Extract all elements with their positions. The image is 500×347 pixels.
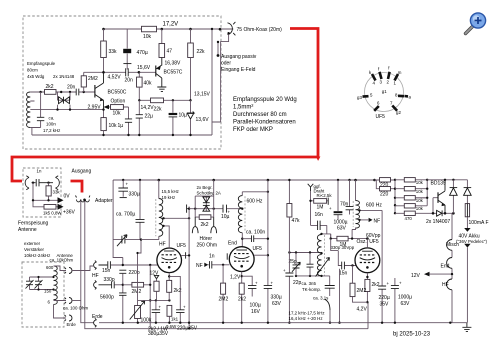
svg-text:Eingang E-Feld: Eingang E-Feld (221, 67, 256, 73)
svg-text:2M2: 2M2 (219, 297, 229, 303)
svg-text:220p: 220p (129, 270, 140, 276)
pin 8 (398, 95, 408, 98)
jack HF input (94, 261, 108, 270)
resistor 1k5 0,8W (44, 205, 56, 210)
tube socket UF5 pinout circle (365, 73, 404, 112)
svg-text:600 Hz: 600 Hz (247, 198, 263, 204)
svg-text:12V: 12V (411, 273, 421, 279)
svg-text:Fernspeisung: Fernspeisung (18, 221, 49, 227)
capacitor 10u electrolytic (172, 100, 174, 135)
svg-text:330µ: 330µ (129, 192, 140, 198)
jack 100 Ohm (65, 298, 73, 304)
svg-text:10k: 10k (416, 206, 424, 211)
svg-text:100µ: 100µ (250, 303, 261, 309)
resistor 10k 2 (395, 188, 427, 190)
svg-text:ca. 10kOhm: ca. 10kOhm (50, 258, 74, 263)
svg-text:Parallel-Kondensatoren: Parallel-Kondensatoren (233, 120, 296, 126)
capacitor variable 1 (29, 277, 31, 290)
svg-text:Erde: Erde (67, 322, 77, 327)
svg-text:Empfangspule: Empfangspule (27, 61, 56, 66)
resistor 40k (138, 72, 140, 77)
svg-text:150: 150 (44, 289, 52, 294)
coil matchbox (54, 266, 58, 304)
wire bias row (138, 299, 170, 301)
zener diode 13,6V (190, 100, 192, 135)
resistor 470 (395, 212, 433, 214)
limiter section main wire (189, 208, 242, 210)
svg-text:22k: 22k (154, 107, 163, 113)
svg-text:2k2: 2k2 (238, 297, 246, 303)
wire adapter downlead B (85, 201, 368, 329)
svg-text:5600p: 5600p (100, 295, 114, 301)
svg-text:+: + (387, 281, 390, 286)
svg-text:63V: 63V (272, 301, 282, 307)
svg-text:17,2 kHz-17,5 kHz: 17,2 kHz-17,5 kHz (289, 310, 325, 315)
svg-text:16n: 16n (315, 212, 324, 218)
svg-text:2k2: 2k2 (372, 282, 380, 288)
svg-text:35V: 35V (380, 302, 390, 308)
svg-text:Misch: Misch (446, 242, 459, 248)
capacitor trimmer 25p (295, 253, 297, 276)
svg-text:63V: 63V (401, 301, 411, 307)
wire diode row (433, 212, 453, 214)
svg-text:+: + (329, 206, 332, 211)
svg-text:End: End (441, 263, 450, 269)
svg-text:22µ: 22µ (145, 114, 154, 120)
resistor 1M (311, 191, 329, 225)
svg-text:220µ: 220µ (379, 295, 390, 301)
svg-text:("36V Pedelec"): ("36V Pedelec") (456, 239, 487, 244)
resistor 10k 1 (395, 179, 427, 181)
capacitor 22p (309, 253, 311, 276)
svg-text:10k: 10k (109, 123, 118, 129)
svg-text:70n: 70n (340, 202, 349, 208)
svg-text:externer: externer (24, 241, 41, 246)
svg-text:15,5 kHz: 15,5 kHz (162, 189, 179, 194)
pin 7 (392, 106, 397, 111)
tube V2 anode (236, 249, 247, 251)
svg-text:Erde: Erde (92, 314, 103, 320)
svg-text:HF: HF (442, 282, 449, 288)
svg-text:380µ35V: 380µ35V (148, 331, 169, 337)
resistor Option 10k (108, 106, 129, 108)
resistor 10k 3 (395, 197, 427, 199)
tube V1 cathode network (168, 273, 170, 301)
svg-text:ca. 3,1s: ca. 3,1s (313, 295, 329, 300)
wire base node (84, 71, 156, 73)
headphone jack symbols (195, 217, 214, 226)
svg-text:15n: 15n (102, 268, 111, 274)
svg-text:+: + (271, 281, 274, 286)
arrow +36V (58, 204, 64, 210)
svg-text:HF: HF (159, 242, 166, 248)
matchbox dashed box (22, 262, 64, 327)
tube V3 cathode network (366, 273, 368, 302)
svg-text:NF: NF (374, 219, 381, 225)
wire 0V line (33, 183, 58, 207)
svg-text:40k: 40k (144, 81, 153, 87)
tube V1 HF UF5 envelope (157, 248, 182, 273)
resistor 220 b (380, 187, 391, 191)
svg-text:4,52V: 4,52V (108, 75, 122, 81)
svg-text:1k5 0,8W: 1k5 0,8W (43, 211, 62, 216)
tube V1 cathode (162, 258, 177, 260)
svg-text:+36V: +36V (63, 210, 75, 216)
capacitor elco cathode bypass (169, 276, 180, 322)
ground rail bottom (99, 322, 467, 324)
svg-text:100n: 100n (46, 122, 56, 127)
fuse 100mA (465, 204, 469, 217)
diode protect 2 (466, 180, 468, 204)
capacitor 3n5 TK-komp (329, 276, 331, 296)
svg-text:ca.: ca. (49, 116, 55, 121)
wire right edge vertical (212, 29, 229, 135)
capacitor 330u (122, 180, 124, 197)
svg-text:+: + (283, 268, 286, 273)
svg-text:22p: 22p (293, 280, 302, 286)
svg-text:330µ: 330µ (271, 295, 282, 301)
capacitor 1n series (208, 264, 229, 266)
wire B+ top line (427, 179, 467, 181)
wire grid line tube1 (111, 264, 158, 266)
resistor 33k (103, 29, 105, 41)
wire jack1 to HF input (72, 266, 93, 271)
svg-text:m: m (398, 70, 402, 75)
svg-text:Hörer: Hörer (200, 236, 213, 242)
svg-text:15,6V: 15,6V (137, 65, 151, 71)
adapter socket contacts (76, 196, 90, 202)
svg-text:220: 220 (380, 191, 389, 197)
tube V3 cathode (360, 258, 375, 260)
capacitor 15n series (108, 261, 111, 268)
capacitor 10u series (223, 205, 227, 213)
resistor 2k2 (45, 90, 57, 95)
svg-text:TK-komp.: TK-komp. (302, 287, 321, 292)
svg-text:20n: 20n (67, 85, 76, 91)
svg-text:HF: HF (92, 273, 99, 279)
wire rail drops (102, 28, 105, 31)
potentiometer 100k (138, 240, 142, 323)
oscillator coil (321, 233, 323, 236)
svg-text:250 Ohm: 250 Ohm (197, 243, 218, 249)
svg-text:10kHz-24kHz: 10kHz-24kHz (24, 253, 50, 258)
wire V3 anode up (366, 239, 368, 248)
svg-text:0V: 0V (64, 194, 71, 200)
svg-text:Verstärker: Verstärker (24, 247, 45, 252)
svg-text:ca. 700µ: ca. 700µ (116, 212, 135, 218)
capacitor elco bias 1 (155, 300, 157, 322)
svg-text:13,15V: 13,15V (194, 92, 211, 98)
pin 4 (372, 74, 376, 81)
wire taps to jacks (54, 266, 67, 318)
wire emitter line (30, 109, 103, 111)
wire coil2 bottom to grid (241, 233, 243, 247)
resistor 2M2 grid leak (123, 284, 150, 286)
svg-text:330p 30Vpp: 330p 30Vpp (331, 245, 355, 250)
svg-text:10k: 10k (143, 34, 152, 40)
svg-text:1M: 1M (317, 205, 324, 211)
wire tank left down (288, 217, 290, 323)
svg-text:16V: 16V (251, 309, 261, 315)
svg-text:Adapter: Adapter (95, 198, 113, 204)
pin 6 (374, 106, 379, 111)
svg-text:1,5mm²: 1,5mm² (233, 105, 253, 111)
wire 22k node line (139, 99, 190, 101)
svg-text:330p: 330p (104, 277, 115, 283)
svg-text:BC557C: BC557C (164, 70, 183, 76)
node 17,2V supply rail (104, 28, 234, 30)
pin 5 (363, 95, 369, 98)
resistor 2M2 (83, 72, 85, 76)
svg-text:Antenne: Antenne (18, 227, 37, 233)
svg-text:33k: 33k (53, 190, 61, 195)
svg-text:15n: 15n (339, 271, 348, 277)
coil 600Hz output (355, 180, 357, 201)
diode pair 1N4148 (58, 92, 71, 110)
svg-text:+: + (183, 305, 186, 310)
coil 600Hz interstage (242, 192, 268, 196)
svg-text:16,4 kHz +-20 Hz: 16,4 kHz +-20 Hz (289, 316, 323, 321)
tube V2 cathode (234, 256, 249, 258)
svg-text:470: 470 (405, 216, 413, 221)
svg-text:220µ35V: 220µ35V (177, 326, 198, 332)
wire tank return (339, 269, 341, 323)
diode limiter rails (195, 180, 214, 211)
ground Q2 collector (157, 87, 166, 91)
wire left edge vertical (113, 180, 123, 265)
svg-text:4x5 Wdg: 4x5 Wdg (27, 74, 45, 79)
pin 2 (388, 72, 390, 79)
svg-text:UF5: UF5 (253, 246, 263, 252)
svg-text:ca. 3n5: ca. 3n5 (302, 281, 317, 286)
svg-text:1n: 1n (37, 169, 42, 174)
capacitor 330u 63V (267, 180, 269, 323)
wire red coax link (12, 29, 318, 182)
svg-text:19 kHz: 19 kHz (162, 195, 176, 200)
svg-text:2x Begr.: 2x Begr. (197, 185, 213, 190)
svg-text:2,95V: 2,95V (88, 105, 102, 111)
wire coil bottom (30, 128, 40, 136)
tube V3 Osz UF5 envelope (355, 248, 380, 273)
svg-text:1µ: 1µ (118, 123, 124, 129)
svg-text:Schottky, 2A: Schottky, 2A (197, 190, 221, 195)
svg-text:1k1: 1k1 (171, 317, 179, 322)
svg-text:g3: g3 (357, 95, 362, 100)
resistor 22k (top) (190, 29, 192, 43)
wire battery minus down (466, 248, 468, 323)
svg-text:1,2V: 1,2V (230, 275, 241, 281)
svg-text:+: + (159, 305, 162, 310)
tube V1 anode (164, 250, 174, 252)
coax jack output (39, 176, 59, 190)
svg-text:47k: 47k (292, 218, 301, 224)
wire coil bottom (141, 236, 159, 239)
svg-text:60Vpp: 60Vpp (366, 233, 381, 239)
svg-text:10µ: 10µ (179, 113, 188, 119)
svg-text:20n: 20n (125, 78, 134, 84)
wire adapter downlead A (81, 201, 94, 323)
svg-text:Durchmesser 80 cm: Durchmesser 80 cm (233, 112, 287, 118)
wire anode line V1 (181, 254, 189, 256)
ground symbol (462, 323, 471, 332)
svg-text:13,6V: 13,6V (196, 117, 210, 123)
pin 1 (395, 74, 399, 81)
diode protect 1 (452, 180, 454, 214)
svg-text:80cm: 80cm (27, 68, 38, 73)
svg-text:ca. 100 Ohm: ca. 100 Ohm (63, 306, 88, 311)
capacitor ca 100n series (242, 238, 268, 240)
arrow tuning slug (316, 258, 330, 277)
svg-text:33k: 33k (109, 49, 118, 55)
capacitor series jack2 (112, 281, 115, 288)
svg-text:2M2: 2M2 (132, 289, 142, 295)
svg-text:17,2V: 17,2V (163, 22, 179, 28)
switch lever (325, 299, 331, 310)
svg-text:ca. 100n: ca. 100n (246, 229, 265, 235)
svg-text:16,38V: 16,38V (165, 61, 182, 67)
capacitor 20n series (76, 89, 79, 96)
resistor 22k (151, 98, 164, 103)
ground rail preamp (32, 134, 212, 136)
capacitor 20n series (stage2) (126, 68, 129, 76)
tube V3 anode (362, 250, 373, 252)
capacitor 15n grid (331, 239, 357, 266)
icon magnifier zoom (466, 13, 486, 34)
resistor 10k emitter (103, 110, 105, 118)
node B+ top rail (113, 179, 374, 181)
resistor 1k1 (167, 305, 172, 316)
arrow 0V (58, 197, 64, 203)
svg-text:10k: 10k (416, 180, 424, 185)
svg-text:2k2: 2k2 (46, 84, 54, 90)
capacitor 5600p (119, 293, 126, 295)
jack antenna out (65, 268, 73, 274)
resistor 2M2 grid leak V2 (222, 265, 224, 323)
svg-text:17,2 kHz: 17,2 kHz (43, 128, 60, 133)
svg-text:63V: 63V (337, 226, 347, 232)
wire cap top/bottom joins (30, 277, 54, 290)
tube V3 grids (360, 255, 375, 263)
resistor 220 a (375, 180, 396, 189)
Fernspeisung dashed box (23, 168, 61, 217)
svg-text:g2: g2 (396, 110, 401, 115)
tube V2 grids (234, 254, 249, 262)
svg-text:10k: 10k (416, 198, 424, 203)
resistor 10k 4 (395, 205, 427, 207)
svg-text:47: 47 (167, 49, 173, 55)
jack Erde (94, 318, 97, 327)
wire red adapter link (71, 181, 83, 193)
svg-text:22k: 22k (197, 49, 206, 55)
svg-text:Option: Option (111, 98, 126, 104)
svg-text:+: + (255, 281, 258, 286)
capacitor ca 100n (40, 92, 42, 128)
svg-text:600 Hz: 600 Hz (366, 203, 382, 209)
svg-text:BD139: BD139 (431, 181, 447, 187)
wire coil3 bottom to feedback (352, 228, 355, 239)
diode 1N4007 (437, 210, 442, 216)
wire grid bias vertical (149, 265, 151, 328)
wire tank top (289, 252, 321, 254)
capacitor 22u (138, 100, 140, 135)
capacitor 16n (311, 225, 331, 238)
coil 15,5kHz/19kHz (158, 180, 160, 199)
svg-text:2x 1N4148: 2x 1N4148 (53, 74, 75, 79)
node Ausgang passiv (217, 42, 219, 56)
capacitor 70n (349, 180, 351, 215)
pin 3 (380, 72, 382, 79)
resistor 12V dropper (156, 279, 158, 281)
svg-text:+: + (399, 281, 402, 286)
svg-text:2M2: 2M2 (357, 288, 367, 294)
resistor 47k dropper (288, 180, 290, 204)
svg-text:10k: 10k (113, 111, 122, 117)
wire coil3 tap1 to 220u (360, 210, 383, 281)
resistor 10k (48, 183, 50, 186)
svg-text:bj 2025-10-23: bj 2025-10-23 (393, 332, 431, 338)
svg-text:FKP oder MKP: FKP oder MKP (233, 127, 273, 133)
svg-text:10µ: 10µ (221, 214, 230, 220)
svg-text:NF: NF (196, 263, 203, 269)
svg-text:2x 1N4007: 2x 1N4007 (426, 219, 450, 225)
transistor Q2 BC557C (155, 66, 157, 77)
tube V2 End UF5 envelope (229, 247, 254, 272)
heater chain (451, 213, 453, 322)
capacitor 220p (119, 270, 126, 273)
resistor 10k (rail series) (142, 26, 157, 32)
battery terminal arrows (466, 217, 468, 228)
svg-text:600: 600 (46, 265, 54, 270)
tube V2 cathode network (241, 272, 243, 323)
capacitor ca 700p variable (139, 180, 141, 240)
capacitor 1000u 63V psu (394, 278, 396, 323)
grid stub tube V2 (226, 253, 228, 259)
wire V2 anode out (254, 254, 268, 256)
svg-text:UF5: UF5 (376, 114, 386, 120)
svg-text:14,2V: 14,2V (141, 105, 155, 111)
wire coil top to base (30, 92, 94, 101)
preamp enclosure dashed box (23, 16, 221, 149)
wire osc grid node (331, 234, 368, 239)
wire tank bottom (296, 275, 330, 277)
svg-text:2k2: 2k2 (201, 222, 209, 228)
wire coil taps (164, 218, 190, 248)
svg-text:UF5: UF5 (177, 243, 187, 249)
svg-text:g1: g1 (382, 89, 387, 94)
capacitor 1u (128, 107, 130, 135)
wire collector column (415, 180, 427, 206)
capacitor 470u electrolytic (126, 29, 128, 70)
antenna coil Empfangspule (27, 92, 31, 128)
resistor 2k2 parallel (195, 209, 214, 217)
svg-text:Ausgang passiv: Ausgang passiv (221, 54, 257, 60)
coax jack input (25, 176, 35, 190)
svg-text:10k: 10k (416, 189, 424, 194)
jack erde out (65, 315, 73, 321)
svg-text:UF5: UF5 (369, 239, 379, 245)
diode D1 schottky (203, 197, 210, 203)
svg-text:75 Ohm-Koax (20m): 75 Ohm-Koax (20m) (237, 27, 283, 33)
svg-text:End: End (228, 241, 237, 247)
wire filter vertical (188, 207, 190, 329)
capacitor 220u 35V (381, 282, 383, 323)
svg-text:4,2V: 4,2V (357, 307, 368, 313)
svg-text:Osz.: Osz. (357, 239, 367, 245)
diode D2 schottky (203, 206, 210, 212)
resistor 2M2 osc grid leak (353, 266, 368, 303)
capacitor 1000u 63V (337, 180, 339, 220)
svg-text:+: + (126, 182, 129, 187)
